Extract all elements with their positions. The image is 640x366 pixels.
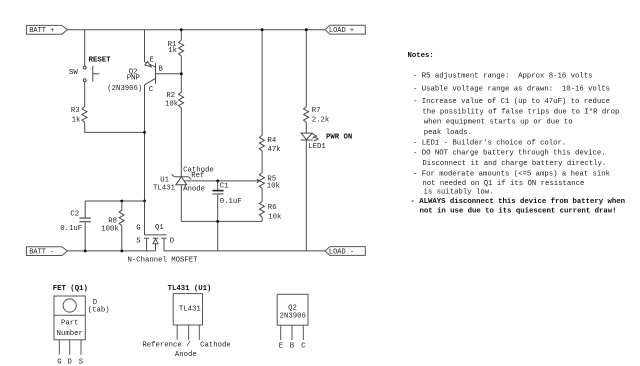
wire R4 to R5 (261, 151, 263, 173)
LED LED1 (301, 133, 352, 151)
svg-text:- R5 adjustment range: Approx: - R5 adjustment range: Approx 8-16 volts (413, 73, 593, 81)
svg-text:not needed on Q1 if its ON res: not needed on Q1 if its ON resistance (422, 180, 584, 188)
svg-text:10k: 10k (165, 100, 179, 108)
svg-text:- ALWAYS disconnect this devic: - ALWAYS disconnect this device from bat… (411, 198, 626, 206)
svg-text:- DO NOT charge battery throug: - DO NOT charge battery through this dev… (413, 150, 606, 158)
switch SW (pushbutton RESET) (69, 56, 111, 81)
svg-text:Notes:: Notes: (408, 52, 434, 60)
wire R6 to anode rail (261, 217, 263, 221)
transistor Q2 PNP (2N3906) (107, 56, 163, 94)
svg-text:- For moderate amounts (<=5 am: - For moderate amounts (<=5 amps) a heat… (413, 170, 611, 178)
flag LOAD + (325, 25, 365, 35)
wire top rail BATT+ to LOAD+ (67, 29, 325, 31)
svg-text:0.1uF: 0.1uF (220, 198, 242, 206)
op-amp U1 TL431 shunt regulator (153, 166, 214, 193)
notes text (408, 52, 626, 215)
wire C1 to bottom rail (217, 195, 219, 251)
wire U1 anode down (180, 185, 182, 222)
svg-text:N-Channel MOSFET: N-Channel MOSFET (128, 257, 199, 265)
flag BATT - (26, 247, 67, 257)
svg-text:R7: R7 (312, 107, 321, 115)
svg-text:Disconnect it and charge batte: Disconnect it and charge battery directl… (422, 160, 606, 168)
svg-text:D: D (170, 238, 175, 246)
resistor R1 1k (168, 40, 184, 56)
wiper arrow into R5 (257, 179, 260, 183)
wire Q2 base to R1/R2 node (156, 73, 182, 75)
wire R7 to LED1 (305, 122, 307, 133)
svg-text:Cathode: Cathode (200, 342, 231, 350)
node bottom rail / C2 (84, 250, 87, 253)
wire R3 down (84, 122, 86, 132)
svg-text:C: C (301, 343, 306, 351)
svg-text:R6: R6 (268, 204, 277, 212)
svg-text:- Increase value of C1 (up to: - Increase value of C1 (up to 47uF) to r… (413, 98, 610, 106)
svg-text:E: E (150, 56, 154, 64)
svg-text:TL431: TL431 (153, 185, 176, 193)
wire anode rail to R6 bottom (181, 220, 262, 222)
svg-text:B: B (290, 343, 295, 351)
svg-text:peak loads.: peak loads. (424, 129, 472, 137)
svg-text:R4: R4 (268, 137, 277, 145)
flag BATT + (26, 25, 67, 35)
svg-text:S: S (136, 238, 141, 246)
node base junction (180, 72, 183, 75)
wire junction down to Q1 gate (144, 201, 146, 235)
package drawing Q2 2N3906 (277, 294, 308, 350)
wire R2 to U1 cathode (180, 108, 182, 177)
svg-text:100k: 100k (101, 225, 119, 233)
wire gate rail C2 to junction (85, 200, 144, 202)
wire R1 to R2 (180, 56, 182, 92)
node top rail / R1 column (180, 28, 183, 31)
svg-text:1k: 1k (72, 116, 81, 124)
wire top rail to R7 (305, 30, 307, 107)
wire R5 to R6 (261, 188, 263, 201)
svg-text:E: E (279, 343, 283, 351)
svg-text:- LED1 - Builder's choice of c: - LED1 - Builder's choice of color. (413, 140, 566, 148)
svg-text:BATT -: BATT - (29, 248, 54, 256)
wire top rail to switch SW (84, 30, 86, 66)
svg-text:10k: 10k (268, 213, 282, 221)
wire top rail to Q2 emitter (144, 30, 146, 62)
wire gate rail to R8 (121, 201, 123, 210)
svg-text:R3: R3 (71, 107, 80, 115)
resistor R7 2.2k (304, 107, 330, 125)
svg-text:Number: Number (57, 330, 83, 338)
resistor R6 10k (259, 201, 282, 221)
svg-text:Reference /: Reference / (142, 342, 190, 350)
node gate rail junction (143, 200, 146, 203)
svg-text:SW: SW (69, 69, 78, 77)
svg-text:when equipment starts up or du: when equipment starts up or due to (424, 119, 573, 127)
resistor R8 100k (101, 210, 124, 234)
wire SW to R3 (84, 82, 86, 107)
svg-text:R8: R8 (108, 217, 117, 225)
capacitor C1 0.1uF (212, 181, 241, 206)
package drawing TL431 (U1) (142, 285, 230, 359)
node ref / C1 (216, 180, 219, 183)
resistor R3 1k (71, 107, 87, 125)
svg-text:TL431 (U1): TL431 (U1) (168, 285, 212, 293)
svg-text:LOAD +: LOAD + (329, 27, 354, 35)
svg-text:0.1uF: 0.1uF (60, 225, 82, 233)
svg-text:Ref: Ref (191, 172, 204, 180)
wire bottom rail BATT- to Q1 source/body (67, 250, 155, 252)
resistor R5 10k pot (259, 173, 280, 191)
capacitor C2 0.1uF (60, 201, 91, 233)
svg-text:LED1: LED1 (308, 143, 326, 151)
transistor Q1 N-channel MOSFET (128, 224, 199, 264)
svg-text:B: B (159, 66, 164, 74)
svg-text:is suitably low.: is suitably low. (424, 188, 494, 196)
node bottom rail / R8 (120, 250, 123, 253)
svg-text:TL431: TL431 (179, 305, 202, 313)
svg-text:2.2k: 2.2k (312, 116, 330, 124)
svg-text:D: D (68, 358, 73, 366)
svg-text:2N3906: 2N3906 (280, 313, 306, 321)
svg-text:Anode: Anode (175, 351, 197, 359)
node anode rail / C1 (216, 220, 219, 223)
svg-text:R2: R2 (166, 92, 175, 100)
svg-text:47k: 47k (268, 146, 282, 154)
package drawing FET (Q1) TO-220 (53, 285, 110, 366)
resistor R4 47k (259, 135, 281, 154)
svg-text:not in use due to its quiescen: not in use due to its quiescent current … (420, 208, 617, 216)
svg-text:- Usable voltage range as draw: - Usable voltage range as drawn: 10-16 v… (413, 85, 610, 93)
svg-text:Q1: Q1 (155, 224, 164, 232)
svg-text:G: G (57, 358, 61, 366)
svg-text:the possiblity of false trips: the possiblity of false trips due to I*R… (422, 109, 619, 117)
svg-text:G: G (136, 225, 140, 233)
svg-text:FET (Q1): FET (Q1) (53, 285, 88, 293)
wire U1 ref to R5 wiper (185, 180, 259, 182)
node top rail / R7 column (305, 28, 308, 31)
svg-text:U1: U1 (160, 176, 169, 184)
svg-text:RESET: RESET (89, 56, 112, 64)
svg-text:BATT +: BATT + (29, 27, 54, 35)
svg-text:C2: C2 (70, 210, 79, 218)
svg-text:(tab): (tab) (88, 306, 110, 314)
svg-text:LOAD -: LOAD - (329, 248, 354, 256)
svg-text:C1: C1 (220, 183, 229, 191)
svg-text:PWR ON: PWR ON (326, 133, 352, 141)
svg-text:Q2: Q2 (288, 304, 297, 312)
svg-text:S: S (79, 358, 84, 366)
svg-text:Anode: Anode (183, 185, 205, 193)
wire C2 to bottom rail (84, 222, 86, 251)
wire Q2 collector down to gate rail (144, 85, 146, 201)
svg-text:C: C (149, 86, 154, 94)
node collector / R3 link (143, 131, 146, 134)
node gate rail / R8 (120, 200, 123, 203)
svg-text:1k: 1k (168, 47, 177, 55)
wire R8 to bottom rail (121, 226, 123, 251)
node top rail / R4 column (261, 28, 264, 31)
wire bottom rail Q1 drain to LOAD- (164, 250, 325, 252)
resistor R2 10k (165, 92, 184, 108)
svg-text:PNP: PNP (127, 75, 140, 83)
wire LED1 to bottom rail (305, 140, 307, 251)
svg-text:10k: 10k (267, 183, 281, 191)
svg-text:Part: Part (61, 320, 79, 328)
wire R3 to Q2 collector column (85, 131, 145, 133)
wire top rail to R1 (180, 30, 182, 41)
svg-text:(2N3906): (2N3906) (107, 85, 142, 93)
wire top rail to R4 (261, 30, 263, 136)
flag LOAD - (325, 247, 365, 257)
